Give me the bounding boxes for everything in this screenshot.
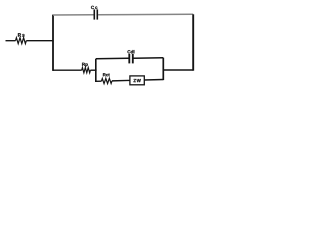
wire inner top left segment (96, 57, 129, 60)
label Cdl (127, 50, 134, 53)
wire right vertical branch (192, 14, 194, 70)
wire from Rct to ZW box (112, 79, 130, 81)
capacitor Cc plate 2 (96, 9, 98, 19)
wire middle branch from junction (53, 69, 82, 71)
wire inner bottom left stub (96, 80, 102, 82)
label Cc (91, 6, 97, 9)
wire top branch left segment (53, 14, 94, 16)
label Rs (18, 33, 25, 36)
resistor Rct (101, 78, 112, 83)
wire left input lead (6, 40, 16, 42)
label Rct (103, 73, 110, 76)
wire inner top right segment (134, 57, 164, 59)
capacitor Cdl plate 2 (132, 54, 134, 63)
resistor Rp (82, 68, 91, 73)
capacitor Cdl plate 1 (128, 54, 130, 63)
capacitor Cc plate 1 (93, 9, 95, 19)
wire top branch right segment (98, 13, 193, 15)
wire connector inner box to right branch (163, 69, 193, 71)
wire from Rp to inner box left edge (90, 69, 96, 71)
wire left vertical branch (52, 15, 54, 71)
wire from Rs to left junction (26, 40, 53, 42)
resistor Rs (16, 38, 27, 44)
label Rp (82, 63, 88, 67)
wire inner left edge (95, 59, 97, 82)
wire from ZW box to inner right edge (144, 79, 163, 82)
label ZW (133, 79, 140, 82)
impedance element ZW (Warburg) box (130, 76, 144, 85)
wire inner right edge (162, 58, 164, 80)
